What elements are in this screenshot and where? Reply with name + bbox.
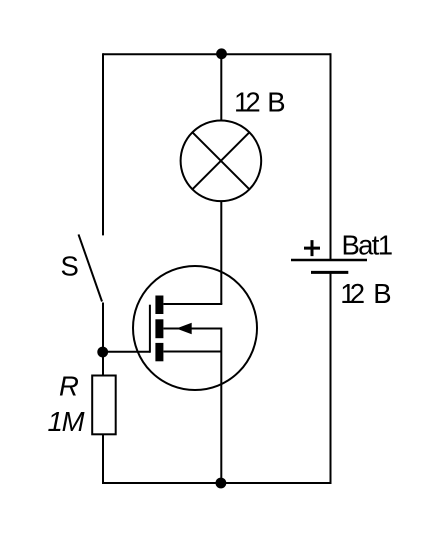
svg-text:1M: 1M bbox=[48, 406, 85, 437]
svg-text:12В: 12В bbox=[340, 278, 391, 309]
svg-text:Bat1: Bat1 bbox=[342, 229, 394, 260]
svg-text:S: S bbox=[61, 250, 79, 281]
svg-text:R: R bbox=[59, 371, 79, 402]
svg-text:12В: 12В bbox=[234, 87, 286, 118]
